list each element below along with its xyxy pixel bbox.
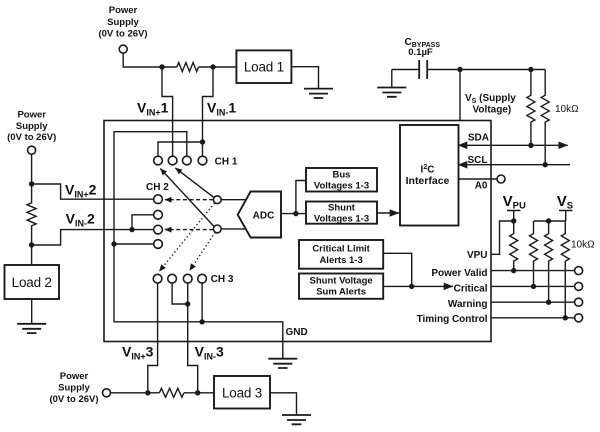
wire supply1 to shunt R1: [123, 53, 177, 67]
svg-text:Interface: Interface: [406, 175, 450, 187]
svg-text:Power: Power: [60, 371, 89, 382]
svg-text:Shunt Voltage: Shunt Voltage: [310, 276, 373, 287]
wire supply3 to R3: [111, 392, 160, 394]
node VS rail: [546, 218, 551, 223]
svg-text:VIN-2: VIN-2: [66, 210, 95, 228]
svg-text:Warning: Warning: [448, 299, 488, 310]
svg-text:0.1µF: 0.1µF: [408, 47, 433, 58]
ground G6 (bypass cap): [391, 70, 393, 88]
wire VS supply into IC: [459, 70, 461, 121]
svg-text:Load 2: Load 2: [12, 275, 52, 290]
svg-text:Sum Alerts: Sum Alerts: [316, 287, 366, 298]
svg-text:(0V to 26V): (0V to 26V): [7, 132, 56, 143]
node VIN+1 junction: [159, 64, 164, 69]
VPU supply bar: [507, 211, 520, 222]
svg-text:Power Valid: Power Valid: [431, 268, 487, 279]
svg-text:Voltages 1-3: Voltages 1-3: [314, 214, 369, 225]
node top rail / SDA pullup: [528, 67, 533, 72]
Shunt Voltage Sum Alerts box: [299, 274, 383, 299]
svg-text:10kΩ: 10kΩ: [571, 240, 595, 251]
wire SCL: [458, 164, 570, 166]
svg-text:Bus: Bus: [333, 170, 351, 181]
wire Critical Limit to Critical node: [383, 253, 412, 286]
resistor pullup B (Warning): [545, 221, 553, 302]
select arrow solid mux1 to CH1 c2: [175, 168, 214, 198]
svg-text:10kΩ: 10kΩ: [555, 104, 579, 115]
power supply 3 label: [49, 371, 98, 405]
wire Load2 to ground: [31, 299, 33, 324]
svg-text:VS: VS: [557, 193, 573, 212]
wire top rail to pullups: [460, 69, 545, 71]
Load 2 box: [5, 265, 60, 299]
node alerts junction: [409, 284, 414, 289]
svg-text:VIN+2: VIN+2: [65, 182, 97, 200]
wire VIN+2: [32, 184, 154, 199]
node VS/cap: [457, 67, 462, 72]
arrow Shunt Voltages to I2C: [377, 212, 399, 214]
svg-text:I2C: I2C: [421, 164, 435, 176]
node ADC output: [293, 211, 298, 216]
wire ADC output: [281, 213, 307, 215]
resistor SCL pullup 10k: [541, 70, 549, 165]
svg-text:Alerts 1-3: Alerts 1-3: [319, 255, 362, 266]
select arrow dotted mux2 to CH3 c3: [190, 232, 216, 270]
terminal: power supply 3: [103, 389, 111, 397]
CH1 contact circles: [154, 156, 163, 165]
terminal Warning: [575, 298, 583, 306]
svg-text:SDA: SDA: [468, 132, 489, 143]
wire supply2 down: [31, 154, 33, 184]
resistor VPU pullup: [510, 221, 518, 271]
Load 1 box: [236, 50, 291, 83]
terminal Critical: [575, 282, 583, 290]
node SDA pullup: [528, 143, 533, 148]
wire Load3 to ground: [270, 393, 297, 415]
node GND to CH2 c4: [111, 241, 116, 246]
svg-text:Supply: Supply: [16, 121, 48, 132]
svg-text:Voltage): Voltage): [473, 104, 512, 115]
arrow alerts to Critical pin: [383, 285, 453, 287]
svg-text:VIN-3: VIN-3: [195, 344, 224, 362]
svg-text:CH 1: CH 1: [215, 156, 238, 167]
ground G5 (GND pin): [268, 359, 297, 368]
node VPU: [511, 218, 516, 223]
wire VIN-1: [203, 67, 214, 156]
wire Load1 to ground: [291, 67, 318, 89]
svg-text:VIN+1: VIN+1: [137, 100, 169, 118]
resistor R1 (shunt 1): [177, 63, 199, 72]
node pullup B: [546, 300, 551, 305]
terminal: power supply 2: [28, 146, 36, 154]
wire A0: [459, 178, 498, 180]
pin labels right: [417, 250, 488, 325]
svg-text:A0: A0: [475, 181, 488, 192]
wire Timing Control: [491, 317, 575, 319]
svg-text:VPU: VPU: [467, 250, 488, 261]
node VPU pullup to Power Valid: [511, 268, 516, 273]
wire GND branch to CH2 c4: [114, 243, 154, 245]
terminal Timing Control: [575, 314, 583, 322]
svg-text:Timing Control: Timing Control: [417, 314, 488, 325]
wire mux2 to ADC: [221, 228, 245, 230]
svg-text:SCL: SCL: [468, 155, 488, 166]
svg-text:VPU: VPU: [503, 193, 526, 212]
wire VIN+3: [148, 283, 158, 393]
wire VIN-2: [32, 230, 154, 245]
terminal: power supply 1: [119, 45, 127, 53]
wire branch to Bus Voltages: [296, 181, 306, 214]
wire VIN-1 branch to CH1 contact 1: [158, 142, 203, 156]
svg-text:VIN+3: VIN+3: [122, 344, 154, 362]
op-amp ADC: [238, 192, 281, 238]
wire CH2 c2 jog to VIN-2: [132, 215, 154, 230]
wire VPU pin: [491, 221, 514, 254]
wire mux1 to ADC: [221, 199, 246, 201]
select arrow solid mux2 to CH1 c1: [160, 169, 214, 227]
svg-text:VS (Supply: VS (Supply: [465, 93, 516, 105]
node GND to CH3 c4: [199, 319, 204, 324]
node on VIN-1: [200, 139, 205, 144]
select arrow dashed mux2 to CH2 c3: [165, 229, 214, 231]
CH3 contact circles: [153, 274, 162, 283]
svg-text:GND: GND: [286, 327, 308, 338]
wire R1 to Load 1: [199, 66, 237, 68]
node VIN+3 junction: [145, 390, 150, 395]
svg-text:CH 2: CH 2: [146, 182, 169, 193]
svg-text:Critical Limit: Critical Limit: [312, 244, 370, 255]
wire to Load 2: [31, 245, 33, 265]
svg-text:Voltages 1-3: Voltages 1-3: [314, 181, 369, 192]
power supply 2 label: [7, 109, 56, 143]
resistor R2 (shunt 2): [27, 184, 36, 245]
capacitor C_BYPASS: [392, 69, 460, 71]
Shunt Voltages box: [306, 202, 377, 224]
node c2/c3 junction: [129, 227, 134, 232]
CH2 contact circles: [154, 195, 163, 204]
svg-text:CH 3: CH 3: [211, 274, 234, 285]
ground G4: [282, 415, 311, 424]
ground G2: [17, 324, 46, 333]
ground G1: [304, 89, 333, 98]
node pullup A: [531, 284, 536, 289]
svg-text:Power: Power: [109, 5, 138, 16]
wire Critical: [491, 285, 575, 287]
select arrow dashed mux1 to CH2 c1: [165, 199, 214, 201]
wire CH3 c2 jog: [172, 283, 188, 304]
node VIN-3 junction: [195, 390, 200, 395]
svg-text:Supply: Supply: [107, 17, 139, 28]
wire VIN-3: [188, 283, 198, 393]
wire GND branch to CH3 c4: [201, 283, 203, 322]
svg-text:Supply: Supply: [58, 383, 90, 394]
node VIN-1 junction: [210, 64, 215, 69]
node VIN+2 junction: [29, 181, 34, 186]
node VIN-2 junction: [29, 242, 34, 247]
resistor R3 (shunt 3): [159, 388, 184, 397]
svg-text:Critical: Critical: [454, 283, 488, 294]
resistor pullup C (Timing Control): [561, 221, 569, 318]
wire VIN+1: [162, 67, 173, 156]
GND net wire: [114, 132, 283, 359]
IC boundary box: [104, 121, 491, 342]
svg-text:(0V to 26V): (0V to 26V): [98, 29, 147, 40]
node c2/c3 junction CH3: [185, 301, 190, 306]
node pullup C: [563, 315, 568, 320]
wire R3 to Load 3: [184, 392, 214, 394]
svg-text:ADC: ADC: [253, 210, 275, 221]
svg-text:Power: Power: [17, 109, 46, 120]
svg-text:(0V to 26V): (0V to 26V): [49, 394, 98, 405]
I2C interface box U1: [400, 125, 459, 226]
wire Warning: [491, 301, 575, 303]
resistor pullup A (Critical): [530, 221, 538, 286]
svg-text:Load 1: Load 1: [244, 60, 284, 75]
svg-text:Load 3: Load 3: [222, 386, 262, 401]
svg-text:VIN-1: VIN-1: [207, 100, 236, 118]
select arrow dotted mux1 to CH3 c1: [159, 203, 214, 271]
Critical Limit Alerts box: [299, 240, 383, 269]
terminal A0: [497, 175, 505, 183]
svg-text:Shunt: Shunt: [328, 203, 356, 214]
wire Power Valid: [491, 270, 575, 272]
power supply 1 label: [98, 5, 147, 40]
node SCL pullup: [543, 162, 548, 167]
mux common node 2: [213, 225, 221, 233]
terminal Power Valid: [575, 267, 583, 275]
Load 3 box: [214, 376, 270, 409]
wire SDA: [458, 144, 568, 146]
VS supply bar: [534, 211, 573, 222]
Bus Voltages box: [306, 168, 377, 192]
resistor SDA pullup 10k: [527, 70, 535, 146]
mux common node 1: [213, 196, 221, 204]
